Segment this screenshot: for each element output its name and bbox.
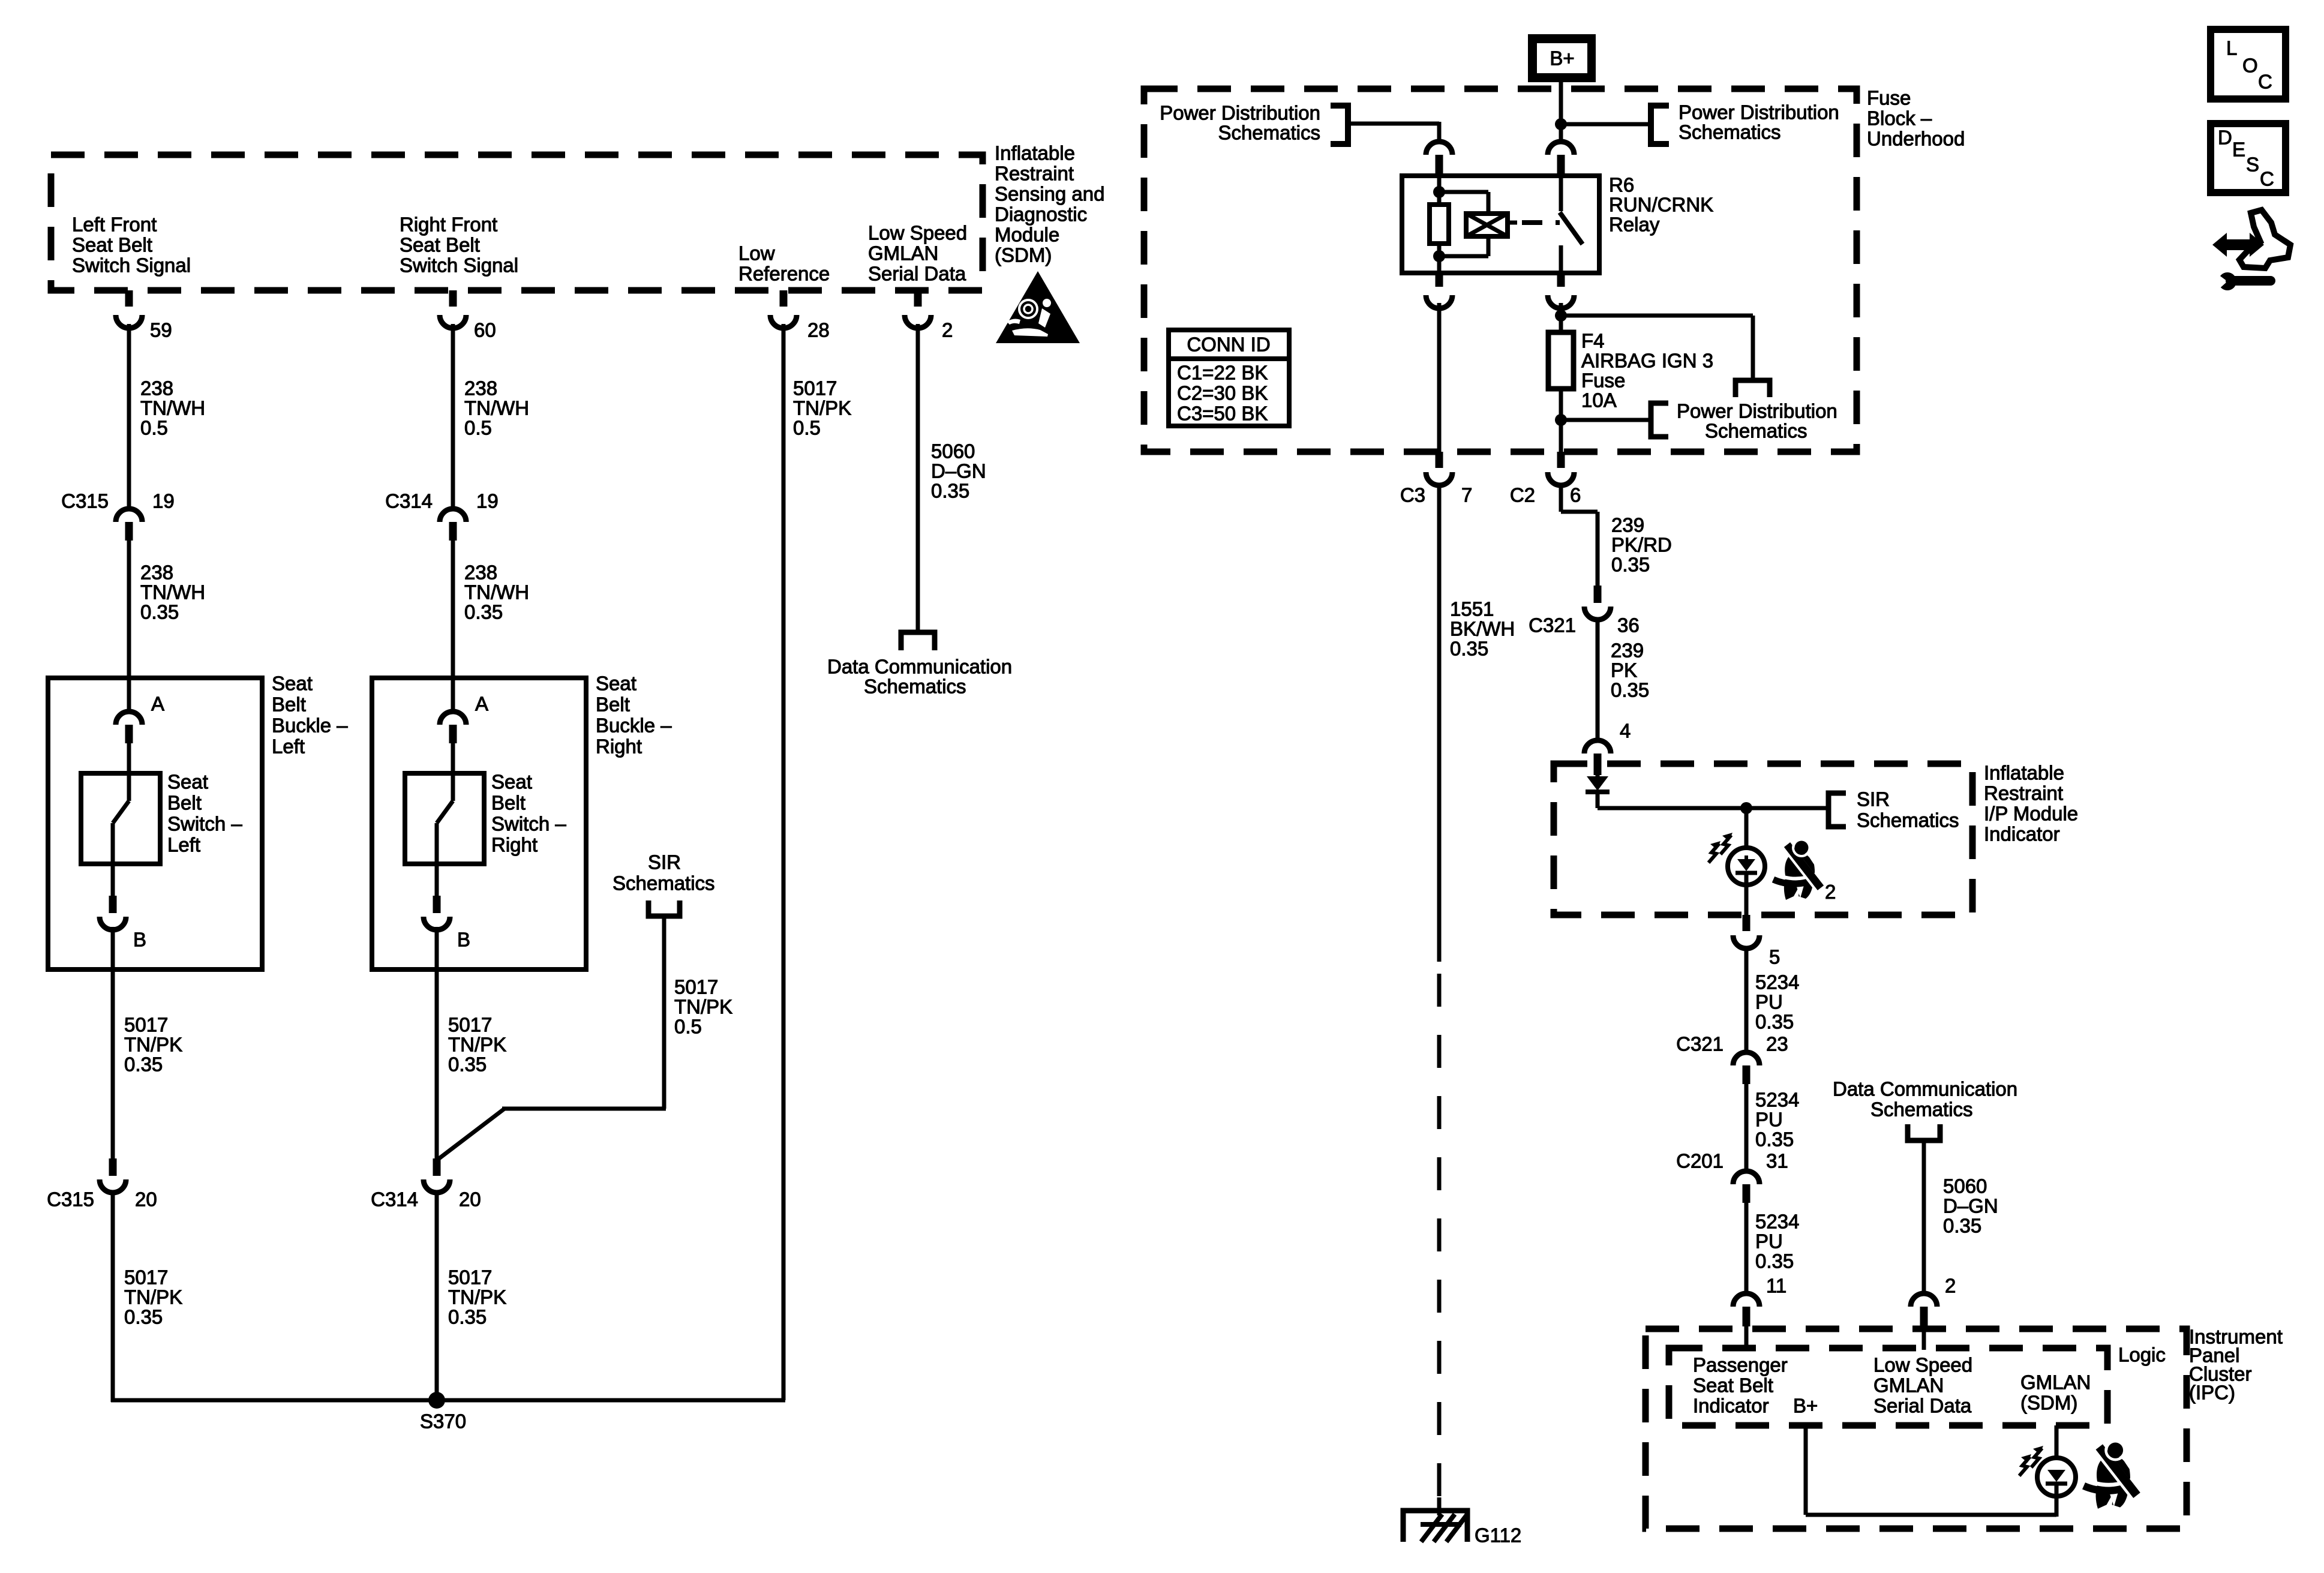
label C315 (lower) (47, 1188, 94, 1211)
svg-text:5017: 5017 (124, 1266, 168, 1289)
svg-text:Schematics: Schematics (1218, 122, 1320, 144)
svg-text:Sensing and: Sensing and (995, 183, 1104, 205)
svg-text:C3: C3 (1400, 484, 1425, 506)
svg-text:Seat: Seat (491, 771, 532, 793)
tag text SIR (648, 851, 681, 873)
cavity number 23 (1766, 1033, 1788, 1055)
relay junction node upper (1433, 186, 1445, 198)
svg-text:Seat: Seat (272, 673, 313, 695)
cavity number 2 (IPC) (1945, 1275, 1956, 1297)
svg-text:Fuse: Fuse (1581, 370, 1625, 392)
svg-text:Inflatable: Inflatable (1984, 762, 2064, 784)
svg-text:5: 5 (1769, 946, 1780, 968)
cavity number 6 (1570, 484, 1581, 506)
svg-text:4: 4 (1620, 720, 1631, 742)
svg-text:GMLAN: GMLAN (2020, 1371, 2091, 1394)
buckle right pin B connector (424, 896, 450, 930)
svg-text:19: 19 (476, 490, 499, 512)
svg-text:RUN/CRNK: RUN/CRNK (1609, 194, 1713, 216)
passenger seat belt icon (indicator) (1773, 839, 1821, 900)
relay coil branch wiring (1439, 178, 1488, 273)
svg-text:11: 11 (1766, 1275, 1786, 1297)
svg-text:238: 238 (464, 562, 497, 584)
svg-text:B: B (457, 929, 470, 951)
svg-text:Seat Belt: Seat Belt (400, 234, 480, 256)
svg-text:PU: PU (1755, 991, 1783, 1013)
svg-text:60: 60 (474, 319, 496, 341)
svg-text:Seat Belt: Seat Belt (1693, 1374, 1773, 1397)
IPC pin 2 connector (1911, 1293, 1937, 1350)
wire label 5060 D-GN 0.35 (IPC) (1943, 1175, 1998, 1237)
IPC logic box (1669, 1348, 2107, 1425)
svg-text:GMLAN: GMLAN (868, 242, 938, 265)
svg-text:0.35: 0.35 (1611, 679, 1649, 701)
svg-text:C201: C201 (1676, 1150, 1724, 1172)
IPC pin 11 connector (1733, 1293, 1759, 1350)
svg-text:Right Front: Right Front (400, 214, 497, 236)
wire label 5017 TN/PK 0.5 (SIR) (674, 976, 732, 1038)
connector C315 cavity 19 (116, 509, 142, 541)
svg-text:31: 31 (1766, 1150, 1788, 1172)
svg-text:1551: 1551 (1450, 598, 1494, 620)
Instrument Panel Cluster box (1646, 1329, 2187, 1529)
SDM module box (Inflatable Restraint Sensing and Diagnostic Module) (51, 155, 983, 290)
tag text Power Distribution Schematics (lower) (1677, 400, 1837, 442)
label C201 (1676, 1150, 1724, 1172)
wire tap to power distribution down-bracket (1561, 316, 1753, 379)
wire label 238 TN/WH 0.35 (left) (140, 562, 205, 623)
wire from upper-left tag to relay coil pin (1348, 122, 1439, 140)
svg-text:2: 2 (1945, 1275, 1956, 1297)
relay R6 box (1402, 176, 1599, 273)
module name: Instrument Panel Cluster (IPC) (2189, 1326, 2283, 1404)
svg-text:Module: Module (995, 224, 1059, 246)
label C321 (upper) (1529, 614, 1576, 637)
svg-text:C314: C314 (371, 1188, 418, 1211)
component name: Seat Belt Buckle Right (596, 673, 672, 758)
Power Distribution bracket (upper left) (1331, 106, 1348, 144)
svg-text:Indicator: Indicator (1984, 823, 2060, 845)
svg-text:Fuse: Fuse (1867, 87, 1911, 109)
fuse F4 (1548, 332, 1574, 389)
label C315 (upper) (61, 490, 109, 512)
svg-text:Low Speed: Low Speed (1873, 1354, 1972, 1376)
svg-text:Switch –: Switch – (167, 813, 242, 835)
svg-text:238: 238 (464, 377, 497, 400)
svg-text:239: 239 (1611, 640, 1644, 662)
svg-text:238: 238 (140, 377, 173, 400)
wire from relay to fuse F4 (1559, 303, 1563, 332)
pin number 59 (150, 319, 172, 341)
wire label 5017 TN/PK 0.35 (left upper) (124, 1014, 182, 1076)
LED lamp in indicator module (1728, 808, 1765, 915)
svg-text:Switch Signal: Switch Signal (400, 254, 518, 277)
svg-text:2: 2 (942, 319, 953, 341)
svg-text:Schematics: Schematics (1679, 121, 1781, 143)
svg-text:C: C (2258, 71, 2272, 93)
seat belt switch left blade (113, 743, 129, 896)
IPC LED lamp (2037, 1425, 2076, 1517)
SIR Schematics off-page bracket (648, 900, 680, 916)
SDM pin label: Low Speed GMLAN Serial Data (868, 222, 967, 285)
svg-text:Low Speed: Low Speed (868, 222, 967, 244)
wire 5017 TN/PK from buckle left (111, 927, 115, 1158)
svg-text:Restraint: Restraint (995, 163, 1074, 185)
IPC label: Low Speed GMLAN Serial Data (1873, 1354, 1972, 1417)
Seat Belt Buckle Right box (372, 678, 586, 969)
svg-text:0.35: 0.35 (448, 1306, 487, 1328)
svg-text:20: 20 (135, 1188, 157, 1211)
junction node at LED branch (1740, 802, 1752, 814)
svg-text:Power Distribution: Power Distribution (1679, 101, 1839, 124)
wire label 239 PK/RD 0.35 (1611, 514, 1672, 576)
cavity number 20 (left) (135, 1188, 157, 1211)
SDM pin 28 connector (770, 290, 797, 328)
wire label 5017 TN/PK 0.5 (low reference) (793, 377, 851, 439)
buckle left pin B connector (100, 896, 126, 930)
svg-text:0.5: 0.5 (464, 417, 492, 439)
component name: Seat Belt Switch Right (491, 771, 566, 856)
junction node above F4 (1555, 310, 1567, 322)
svg-text:Switch Signal: Switch Signal (72, 254, 191, 277)
relay resistor (1430, 205, 1449, 244)
svg-text:0.35: 0.35 (464, 601, 503, 623)
svg-text:F4: F4 (1581, 330, 1605, 352)
svg-text:A: A (475, 693, 488, 715)
relay coil (1466, 214, 1508, 236)
svg-text:C321: C321 (1529, 614, 1576, 637)
wire 239 PK/RD from C2 cavity 6 (1561, 485, 1598, 586)
svg-text:Inflatable: Inflatable (995, 142, 1075, 164)
indicator module pin 5 connector (1733, 915, 1759, 948)
buckle right pin A connector (440, 712, 466, 743)
svg-text:TN/PK: TN/PK (448, 1286, 506, 1308)
wire 5017 TN/PK 0.5 from SIR schematics (437, 916, 666, 1160)
svg-text:PK/RD: PK/RD (1611, 534, 1672, 556)
connector C321 cavity 23 (1733, 1052, 1759, 1084)
relay switch-side bottom connector (1548, 273, 1574, 308)
wire label 5017 TN/PK 0.35 (left lower) (124, 1266, 182, 1328)
svg-text:C3=50 BK: C3=50 BK (1177, 403, 1268, 425)
Data Communication Schematics bracket (right) (1908, 1124, 1940, 1140)
connector C3 cavity 7 (1426, 452, 1452, 485)
wire 1551 BK/WH dashed part (1437, 974, 1442, 1507)
svg-text:0.5: 0.5 (793, 417, 821, 439)
seat belt switch right blade (437, 743, 453, 896)
wire 1551 BK/WH solid part (1437, 483, 1442, 962)
wire 5234 PU segment 3 (1744, 1203, 1749, 1293)
svg-text:Passenger: Passenger (1693, 1354, 1788, 1376)
cavity number 31 (1766, 1150, 1788, 1172)
wire 5234 PU segment 2 (1744, 1084, 1749, 1171)
svg-text:D: D (2218, 127, 2232, 149)
arrow and wrench icon (2212, 210, 2290, 292)
svg-text:Diagnostic: Diagnostic (995, 203, 1087, 226)
relay R6 switch-side pin connector (1548, 142, 1574, 178)
svg-text:(SDM): (SDM) (2020, 1392, 2077, 1414)
cavity number 20 (right) (459, 1188, 481, 1211)
svg-text:Seat: Seat (596, 673, 636, 695)
svg-text:0.35: 0.35 (1755, 1250, 1794, 1272)
wire 238 TN/WH from SDM pin 59 (127, 324, 131, 510)
label S370 (420, 1410, 466, 1433)
tag text Power Distribution (upper left) (1160, 102, 1320, 144)
wire to upper-right tag (1561, 122, 1651, 127)
wire 238 TN/WH from SDM pin 60 (451, 324, 455, 510)
svg-text:0.5: 0.5 (674, 1016, 702, 1038)
wire 5060 D-GN from SDM pin 2 (916, 324, 920, 630)
svg-text:D–GN: D–GN (1943, 1195, 1998, 1217)
svg-text:E: E (2232, 139, 2245, 161)
svg-text:Low: Low (738, 242, 775, 265)
IPC B+ wire (1806, 1425, 2056, 1515)
svg-text:C321: C321 (1676, 1033, 1724, 1055)
svg-text:C2: C2 (1510, 484, 1535, 506)
svg-text:19: 19 (152, 490, 175, 512)
svg-text:5060: 5060 (1943, 1175, 1987, 1197)
svg-text:GMLAN: GMLAN (1873, 1374, 1944, 1397)
Fuse Block Underhood box (1144, 89, 1857, 452)
airbag warning triangle icon (996, 271, 1080, 343)
relay R6 coil-side pin connector (1426, 142, 1452, 178)
svg-text:TN/PK: TN/PK (793, 397, 851, 419)
IPC label B+ (1793, 1395, 1818, 1417)
wire 238 TN/WH 0.35 to right buckle (451, 541, 455, 712)
cavity number 7 (1461, 484, 1472, 506)
svg-text:B+: B+ (1793, 1395, 1818, 1417)
diode in indicator module (1586, 775, 1610, 792)
wire label 5234 PU 0.35 (3) (1755, 1211, 1799, 1272)
svg-text:7: 7 (1461, 484, 1472, 506)
cavity number 5 (1769, 946, 1780, 968)
svg-text:Seat Belt: Seat Belt (72, 234, 152, 256)
svg-text:5017: 5017 (674, 976, 718, 998)
svg-text:Belt: Belt (272, 694, 306, 716)
svg-text:6: 6 (1570, 484, 1581, 506)
Power Distribution bracket (upper right) (1651, 106, 1669, 144)
svg-text:Left: Left (167, 834, 200, 856)
tag text SIR (indicator) (1857, 788, 1890, 810)
wire from B+ to relay (1559, 82, 1563, 140)
pin number 28 (807, 319, 830, 341)
wire from diode to LED branch (1598, 792, 1826, 808)
svg-text:C1=22 BK: C1=22 BK (1177, 362, 1268, 384)
svg-text:Serial Data: Serial Data (1873, 1395, 1972, 1417)
svg-text:TN/WH: TN/WH (464, 581, 529, 604)
svg-text:5017: 5017 (124, 1014, 168, 1036)
cavity number 19 (left) (152, 490, 175, 512)
svg-text:C: C (2260, 168, 2274, 190)
svg-text:Power Distribution: Power Distribution (1160, 102, 1320, 124)
svg-text:PU: PU (1755, 1230, 1783, 1253)
connector C314 cavity 20 (424, 1158, 450, 1193)
pin number 2 (942, 319, 953, 341)
svg-text:20: 20 (459, 1188, 481, 1211)
relay switch contact and blade (1560, 178, 1583, 273)
svg-text:238: 238 (140, 562, 173, 584)
svg-text:B+: B+ (1550, 47, 1574, 70)
wire label 238 TN/WH 0.35 (right) (464, 562, 529, 623)
wire label 5017 TN/PK 0.35 (right lower) (448, 1266, 506, 1328)
SDM pin label: Low Reference (738, 242, 830, 285)
wire below F4 (1559, 389, 1563, 452)
IPC label: Passenger Seat Belt Indicator (1693, 1354, 1788, 1417)
svg-text:Data Communication: Data Communication (827, 656, 1012, 678)
cavity number 4 (1620, 720, 1631, 742)
pin number 60 (474, 319, 496, 341)
cavity number 36 (1617, 614, 1640, 637)
component name: Seat Belt Switch Left (167, 771, 242, 856)
svg-text:Buckle –: Buckle – (272, 715, 348, 737)
wire 5017 TN/PK 0.35 to splice (left) (111, 1191, 115, 1400)
seat belt switch right box (405, 773, 484, 864)
indicator module pin 4 connector (1584, 740, 1611, 775)
svg-text:0.35: 0.35 (1755, 1128, 1794, 1151)
tag text Data Communication (right) (1833, 1078, 2017, 1100)
pin letter A (right) (475, 693, 488, 715)
svg-text:0.35: 0.35 (1450, 638, 1488, 660)
svg-text:C315: C315 (47, 1188, 94, 1211)
svg-text:Schematics: Schematics (1870, 1098, 1973, 1121)
IPC label: GMLAN (SDM) (2020, 1371, 2091, 1414)
svg-text:Underhood: Underhood (1867, 128, 1965, 150)
wire label 239 PK 0.35 (1611, 640, 1649, 701)
svg-text:S370: S370 (420, 1410, 466, 1433)
svg-text:239: 239 (1611, 514, 1644, 536)
connector C201 cavity 31 (1733, 1171, 1759, 1203)
svg-text:0.35: 0.35 (931, 480, 969, 502)
svg-text:0.35: 0.35 (1943, 1215, 1981, 1237)
tag text Schematics (data comm right) (1870, 1098, 1973, 1121)
svg-text:28: 28 (807, 319, 830, 341)
svg-text:Left Front: Left Front (72, 214, 157, 236)
wire label 5017 TN/PK 0.35 (right upper) (448, 1014, 506, 1076)
wire label 5060 D-GN 0.35 (SDM) (931, 440, 986, 502)
svg-text:AIRBAG IGN 3: AIRBAG IGN 3 (1581, 350, 1713, 372)
wire bus to splice S370 (111, 1398, 785, 1402)
module name: Inflatable Restraint I/P Module Indicator (1984, 762, 2078, 845)
Data Communication Schematics bracket (left) (901, 632, 935, 650)
svg-text:Schematics: Schematics (1705, 420, 1807, 442)
wire 5234 PU segment 1 (1744, 946, 1749, 1052)
component name: R6 RUN/CRNK Relay (1609, 174, 1713, 236)
svg-text:Reference: Reference (738, 263, 830, 285)
svg-text:59: 59 (150, 319, 172, 341)
wire 238 TN/WH 0.35 to left buckle (127, 541, 131, 712)
svg-text:G112: G112 (1475, 1524, 1521, 1547)
junction node below F4 (1555, 414, 1567, 426)
relay junction node lower (1433, 250, 1445, 262)
buckle left pin A connector (116, 712, 142, 743)
label C314 (lower) (371, 1188, 418, 1211)
ground G112 symbol (1403, 1497, 1467, 1542)
svg-text:Restraint: Restraint (1984, 782, 2063, 804)
svg-text:10A: 10A (1581, 389, 1617, 412)
SDM pin 59 connector (116, 290, 142, 328)
svg-text:5234: 5234 (1755, 971, 1799, 993)
svg-text:0.35: 0.35 (124, 1053, 163, 1076)
cavity number 19 (right) (476, 490, 499, 512)
tag text Power Distribution (upper right) (1679, 101, 1839, 143)
wire low reference from SDM pin 28 (782, 324, 786, 1400)
svg-text:0.35: 0.35 (140, 601, 179, 623)
label C321 (lower) (1676, 1033, 1724, 1055)
svg-text:Left: Left (272, 736, 305, 758)
svg-text:23: 23 (1766, 1033, 1788, 1055)
SDM pin label: Right Front Seat Belt Switch Signal (400, 214, 518, 277)
SDM pin label: Left Front Seat Belt Switch Signal (72, 214, 191, 277)
svg-text:Belt: Belt (596, 694, 630, 716)
Seat Belt Buckle Left box (48, 678, 262, 969)
svg-text:Belt: Belt (167, 792, 202, 814)
connector C314 cavity 19 (440, 509, 466, 541)
module name: Fuse Block - Underhood (1867, 87, 1965, 150)
svg-text:Schematics: Schematics (1857, 809, 1959, 831)
svg-text:0.5: 0.5 (140, 417, 168, 439)
label C2 (1510, 484, 1535, 506)
svg-text:Logic: Logic (2118, 1344, 2166, 1366)
svg-text:Schematics: Schematics (612, 872, 715, 894)
svg-text:Block –: Block – (1867, 107, 1932, 130)
tag text Data Communication (left) (827, 656, 1012, 678)
wire 239 PK 0.35 (1596, 618, 1600, 741)
relay coil-side bottom connector (1426, 273, 1452, 308)
svg-text:D–GN: D–GN (931, 460, 986, 482)
svg-text:5017: 5017 (448, 1266, 492, 1289)
svg-text:(IPC): (IPC) (2189, 1382, 2235, 1404)
connector C2 cavity 6 (1548, 452, 1574, 485)
module name: Inflatable Restraint Sensing and Diagnostic Module (SDM) (995, 142, 1104, 266)
connector C315 cavity 20 (100, 1158, 126, 1193)
svg-text:Right: Right (491, 834, 538, 856)
cavity number 11 (1766, 1275, 1786, 1297)
svg-text:(SDM): (SDM) (995, 244, 1052, 266)
wire 5017 TN/PK from buckle right (435, 927, 439, 1158)
pin letter B (left) (133, 929, 146, 951)
svg-text:L: L (2226, 37, 2237, 59)
component name: F4 AIRBAG IGN 3 Fuse 10A (1581, 330, 1713, 412)
svg-text:TN/PK: TN/PK (448, 1034, 506, 1056)
svg-text:A: A (151, 693, 164, 715)
svg-text:Indicator: Indicator (1693, 1395, 1769, 1417)
pin letter A (left) (151, 693, 164, 715)
wire 1551 inside fuse block (1437, 303, 1442, 452)
svg-text:TN/WH: TN/WH (140, 581, 205, 604)
SIR Schematics bracket (right) (1828, 793, 1846, 827)
svg-text:Seat: Seat (167, 771, 208, 793)
svg-text:B: B (133, 929, 146, 951)
wire 5017 TN/PK 0.35 to splice (right) (435, 1191, 439, 1400)
component name: Seat Belt Buckle Left (272, 673, 348, 758)
tag text Schematics (data comm left) (864, 676, 966, 698)
svg-text:TN/WH: TN/WH (140, 397, 205, 419)
label C3 (1400, 484, 1425, 506)
wire label 5234 PU 0.35 (1) (1755, 971, 1799, 1033)
junction node on B+ wire (1555, 118, 1567, 130)
svg-text:TN/PK: TN/PK (124, 1286, 182, 1308)
svg-text:BK/WH: BK/WH (1450, 618, 1515, 640)
svg-text:5017: 5017 (793, 377, 837, 400)
wire label 238 TN/WH 0.5 (left) (140, 377, 205, 439)
svg-text:0.35: 0.35 (1755, 1011, 1794, 1033)
svg-text:Right: Right (596, 736, 642, 758)
svg-text:TN/PK: TN/PK (674, 996, 732, 1018)
svg-text:PU: PU (1755, 1109, 1783, 1131)
svg-text:TN/WH: TN/WH (464, 397, 529, 419)
svg-text:Data Communication: Data Communication (1833, 1078, 2017, 1100)
svg-text:C315: C315 (61, 490, 109, 512)
label Logic (2118, 1344, 2166, 1366)
